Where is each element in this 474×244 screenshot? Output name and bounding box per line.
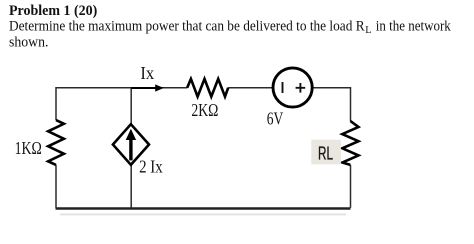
wire: 2K resistor right lead to source — [228, 87, 272, 89]
svg-text:Problem 1 (20): Problem 1 (20) — [9, 3, 97, 19]
label RL text — [318, 144, 333, 164]
svg-text:Determine the maximum power th: Determine the maximum power that can be … — [9, 19, 365, 35]
label 2KOhm — [191, 100, 218, 120]
resistor 2KOhm — [187, 79, 228, 97]
wire: bottom horizontal — [56, 209, 351, 215]
label RL highlight box — [311, 140, 341, 165]
svg-text:2KΩ: 2KΩ — [191, 100, 218, 120]
dependent current source 2Ix (diamond) — [113, 124, 149, 165]
voltage source plus terminal mark — [296, 83, 306, 93]
wire: right vertical upper segment — [350, 87, 352, 121]
svg-text:Ix: Ix — [140, 63, 154, 83]
svg-text:6V: 6V — [267, 109, 284, 129]
svg-text:RL: RL — [318, 144, 333, 164]
wire: middle branch lower (diamond to bottom wire) — [130, 165, 132, 208]
wire: middle branch upper (node A to diamond) — [130, 88, 132, 125]
wire: top-left horizontal segment (node A to 2K resistor) — [56, 87, 187, 89]
svg-text:2 Ix: 2 Ix — [139, 157, 163, 177]
label Ix — [140, 63, 154, 83]
wire: right vertical lower segment — [350, 165, 352, 208]
dependent source arrow (pointing up) — [126, 129, 136, 161]
svg-text:L: L — [365, 25, 371, 36]
wire: top-right segment (source to corner) — [314, 87, 351, 89]
wire: left vertical upper segment — [55, 87, 57, 120]
svg-text:1KΩ: 1KΩ — [15, 138, 42, 158]
resistor R1 1KOhm (left) — [48, 120, 64, 165]
svg-text:shown.: shown. — [9, 35, 49, 51]
problem statement line 1 — [9, 19, 451, 37]
problem statement line 2 — [9, 35, 49, 51]
label 6V — [267, 109, 284, 129]
current arrow Ix — [131, 84, 164, 91]
voltage source minus terminal mark — [282, 82, 284, 93]
svg-text:in the network: in the network — [376, 19, 452, 35]
wire: left vertical lower segment — [55, 165, 57, 208]
label 1KOhm — [15, 138, 42, 158]
label 2 Ix — [139, 157, 163, 177]
problem title text — [9, 3, 97, 19]
resistor RL (right) — [342, 121, 358, 165]
voltage source V1 — [273, 68, 312, 107]
